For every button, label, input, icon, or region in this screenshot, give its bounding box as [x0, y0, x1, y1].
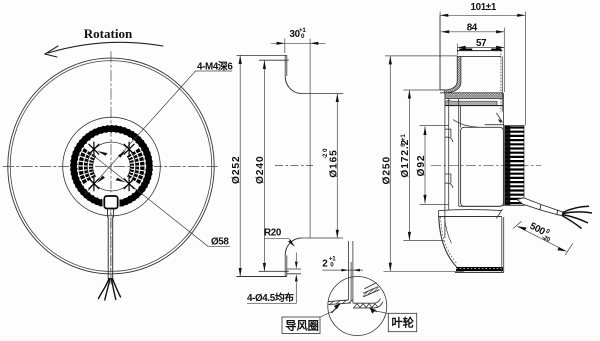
stator slot texture [79, 138, 144, 194]
bolt circle Ø58 [87, 142, 136, 191]
dim 84 [441, 31, 504, 33]
cable from motor [517, 198, 592, 229]
svg-text:4-M4深6: 4-M4深6 [197, 60, 233, 73]
leader arrow to inlet ring lip [332, 304, 341, 314]
dim 30 line [271, 42, 325, 44]
detail: inlet ring lip foot magnified [328, 300, 351, 305]
profile wall bottom [285, 255, 287, 276]
gap dim 2+1/0 line [322, 269, 363, 271]
svg-text:84: 84 [467, 22, 478, 33]
detail: impeller zigzag band magnified [353, 299, 383, 308]
motor body [461, 127, 504, 206]
motor bottom edge [459, 203, 504, 207]
blade bottom dark bar [456, 267, 503, 271]
svg-text:R20: R20 [264, 227, 282, 238]
svg-text:Ø250: Ø250 [381, 156, 392, 185]
bottom extension line Ø252 [236, 276, 286, 278]
centerline [431, 165, 541, 167]
svg-text:Ø58: Ø58 [211, 237, 229, 248]
dim 101±1 [440, 14, 525, 16]
svg-text:-2: -2 [322, 153, 329, 159]
profile wall top [285, 55, 287, 76]
500 dim [513, 221, 522, 228]
svg-text:0: 0 [330, 262, 334, 269]
detail: impeller shroud wedge magnified [363, 283, 379, 297]
fins [505, 125, 524, 205]
label 4-Ø4.5 underline [247, 302, 297, 304]
wire ends splayed [99, 279, 121, 300]
svg-text:101±1: 101±1 [471, 2, 497, 13]
svg-text:2: 2 [322, 259, 328, 270]
leader line daofengquan box [320, 311, 334, 317]
Ø250 dim [389, 56, 391, 271]
blade box bottom inner lines [445, 217, 452, 244]
svg-text:Ø240: Ø240 [255, 155, 266, 184]
blade box right edge bottom [502, 217, 504, 272]
screw M4 star TR [124, 142, 134, 156]
cable gland [104, 196, 117, 209]
svg-text:Ø165: Ø165 [328, 149, 339, 178]
label Ø58 underline [208, 245, 230, 247]
R20 fillet bottom [285, 238, 301, 255]
blade box right serrated edge [500, 51, 502, 112]
impeller outer circle Ø252 [8, 58, 214, 274]
bracket verticals [444, 93, 446, 238]
rotation arc arrow [48, 42, 163, 53]
leader diagonal Ø58 (BR to TL) [89, 152, 208, 246]
hub black serrated ring [74, 129, 150, 205]
step line above fins [485, 124, 504, 126]
svg-text:导风圈: 导风圈 [285, 319, 319, 333]
R20 leader [264, 239, 294, 247]
blade top dark bar [457, 50, 503, 52]
strut top [496, 113, 502, 123]
svg-text:-20: -20 [540, 234, 551, 244]
screw M4 star BR [124, 177, 134, 191]
label 4-M4深6 [196, 70, 233, 72]
svg-text:57: 57 [476, 38, 487, 49]
R20 fillet top [285, 76, 301, 93]
shroud gray band [445, 100, 497, 105]
leader diagonal 4-M4 (TR to BL) [85, 71, 196, 194]
svg-text:0: 0 [322, 148, 329, 152]
strut bottom [496, 209, 502, 219]
cable sleeve [108, 209, 114, 218]
svg-text:Ø252: Ø252 [231, 155, 242, 184]
motor tabs [445, 129, 453, 142]
leader line yelun box [375, 311, 388, 314]
arrowheads at screws [97, 150, 126, 183]
blade top line [458, 55, 501, 57]
dim 57 [458, 46, 505, 48]
cable body [108, 217, 113, 279]
stator winding block left [78, 148, 96, 185]
svg-text:叶轮: 叶轮 [392, 316, 415, 330]
svg-text:4-Ø4.5均布: 4-Ø4.5均布 [247, 291, 294, 304]
Ø172.2 dim [408, 90, 410, 240]
screw M4 star BL [89, 177, 99, 191]
front face vertical [439, 15, 441, 90]
centerline [275, 165, 313, 167]
motor front bell line [453, 120, 478, 128]
dim line Ø165 [336, 94, 338, 239]
box daofengquan [282, 317, 320, 334]
motor front verticals [460, 106, 462, 128]
backplate band bottom [439, 210, 502, 217]
throat line bottom [302, 237, 344, 239]
shroud hatch band [445, 93, 503, 99]
stator winding block right [127, 148, 145, 185]
bottom lip lines [287, 269, 301, 274]
leader arrow to impeller [370, 308, 377, 312]
dim line Ø252 [239, 55, 241, 276]
Ø92 dim [424, 127, 426, 204]
backplate left curve bottom [439, 217, 457, 267]
ext line 30 left [284, 39, 286, 54]
horizontal centerline [3, 165, 219, 167]
dim line Ø240 [263, 60, 265, 271]
cable gland white backing [103, 195, 120, 211]
dim 2 lip arrows [295, 253, 297, 304]
svg-text:Ø92: Ø92 [416, 155, 427, 177]
throat line top [302, 93, 344, 95]
top extension line Ø252 [237, 54, 287, 56]
svg-text:+1: +1 [400, 134, 407, 141]
motor right edge [502, 93, 504, 206]
bottom extension line Ø240 [259, 270, 289, 272]
gap indicator verticals [348, 241, 353, 303]
svg-text:Rotation: Rotation [84, 26, 133, 41]
impeller inner rim circle [10, 61, 212, 272]
box yelun [388, 313, 416, 331]
inlet ring flange section (hatched vertical strip) [445, 56, 461, 93]
hub outer circle [63, 117, 161, 216]
screw M4 star TL [89, 142, 99, 156]
top extension line Ø240 [259, 59, 289, 61]
ext line 30 right (long) [309, 39, 311, 239]
vertical centerline [110, 52, 112, 285]
detail circle [328, 277, 387, 336]
